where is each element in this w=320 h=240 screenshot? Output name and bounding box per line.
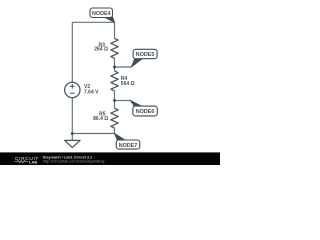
footer logo zigzag: [15, 161, 28, 163]
svg-text:NODE7: NODE7: [119, 143, 138, 149]
wire bottom horizontal: [72, 133, 114, 135]
svg-text:http://circuitlab.com/c2sw4qwh: http://circuitlab.com/c2sw4qwh8kdy: [43, 159, 105, 164]
flag NODE4 box: [90, 8, 113, 18]
wire R4 to node B: [114, 91, 116, 101]
svg-text:NODE5: NODE5: [136, 52, 155, 58]
wire left vertical lower: [71, 98, 73, 134]
svg-text:264 Ω: 264 Ω: [94, 47, 108, 53]
resistor R4: [111, 71, 118, 91]
flag NODE7 box: [116, 140, 140, 149]
wire node A to R4: [114, 67, 116, 71]
ground: [65, 140, 80, 147]
flag NODE5 box: [133, 49, 157, 58]
junction node ground dot: [71, 132, 74, 135]
resistor R3: [111, 38, 118, 58]
voltage source V2: [65, 82, 80, 97]
wire left vertical upper: [71, 22, 73, 82]
wire node A stub to NODE5 flag: [115, 66, 132, 68]
svg-text:NODE4: NODE4: [92, 11, 111, 17]
flag NODE4 pointer: [104, 17, 115, 23]
wire R5 to bottom: [114, 128, 116, 134]
wire R3 to node A: [114, 58, 116, 67]
svg-text:7.64 V: 7.64 V: [84, 90, 99, 96]
flag NODE6 pointer: [130, 100, 142, 106]
wire right vertical top segment: [114, 22, 116, 38]
svg-text:NODE6: NODE6: [136, 109, 155, 115]
wire node B stub to NODE6 flag: [115, 100, 131, 102]
wire top horizontal: [72, 21, 114, 23]
footer bar: [0, 152, 220, 165]
svg-text:86.4 Ω: 86.4 Ω: [93, 116, 108, 122]
junction node A dot: [113, 66, 116, 69]
svg-text:LAB: LAB: [29, 159, 37, 164]
svg-text:564 Ω: 564 Ω: [121, 81, 135, 87]
flag NODE6 box: [133, 106, 158, 116]
flag NODE5 pointer: [131, 58, 143, 67]
V2 minus sign: [70, 92, 75, 94]
V2 plus sign: [70, 84, 75, 93]
wire node B to R5: [114, 101, 116, 109]
flag NODE7 pointer: [114, 133, 126, 140]
junction node B dot: [113, 99, 116, 102]
resistor R5: [111, 108, 118, 128]
ground stem: [71, 134, 73, 141]
